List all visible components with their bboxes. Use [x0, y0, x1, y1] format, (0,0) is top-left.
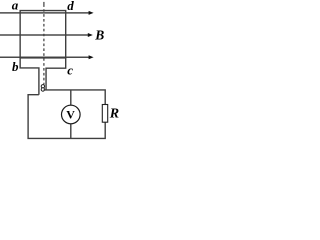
wire: left coil lead to lower ring [20, 58, 39, 95]
wire: right brush to resistor top [44, 90, 106, 105]
coil loop abcd [20, 11, 66, 58]
svg-text:c: c [67, 63, 73, 78]
wire: voltmeter top stub [70, 90, 72, 106]
wire: voltmeter bottom stub [70, 124, 72, 139]
svg-text:a: a [12, 0, 19, 13]
svg-text:b: b [12, 59, 19, 74]
slip ring lower [41, 88, 44, 91]
field line top [0, 11, 94, 15]
resistor R box [102, 105, 107, 123]
wire: left brush, left side and bottom of circuit [28, 95, 105, 139]
svg-text:B: B [94, 27, 104, 42]
field line middle [0, 33, 93, 37]
field line bottom [0, 55, 94, 59]
svg-text:d: d [67, 0, 74, 13]
rotation axis (dashed) [43, 2, 45, 7]
svg-text:V: V [66, 108, 75, 122]
slip ring upper [41, 85, 44, 88]
voltmeter V [62, 105, 81, 124]
wire: right coil lead to upper ring [46, 58, 66, 90]
svg-text:R: R [109, 106, 119, 121]
